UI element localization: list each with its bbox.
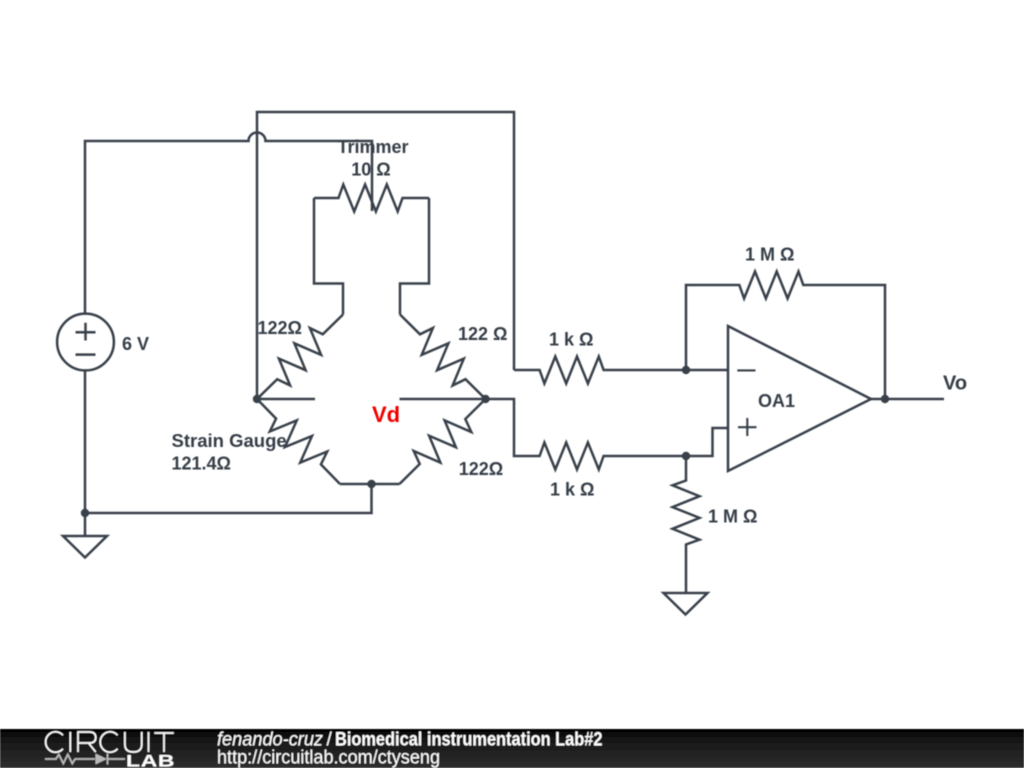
svg-text:LAB: LAB (126, 752, 175, 768)
svg-text:OA1: OA1 (758, 391, 795, 411)
svg-text:Vd: Vd (372, 402, 400, 427)
svg-text:http://circuitlab.com/ctyseng: http://circuitlab.com/ctyseng (217, 747, 440, 768)
svg-text:6 V: 6 V (122, 334, 149, 354)
svg-text:Strain Gauge: Strain Gauge (172, 431, 287, 451)
svg-text:Vo: Vo (943, 373, 967, 395)
svg-text:121.4Ω: 121.4Ω (172, 453, 231, 473)
svg-text:1 M Ω: 1 M Ω (745, 245, 794, 265)
svg-text:Trimmer: Trimmer (337, 137, 408, 157)
svg-text:1 k Ω: 1 k Ω (550, 480, 594, 500)
svg-text:122 Ω: 122 Ω (458, 324, 507, 344)
svg-text:1 k Ω: 1 k Ω (549, 329, 593, 349)
svg-text:10 Ω: 10 Ω (351, 160, 390, 180)
svg-text:122Ω: 122Ω (258, 318, 302, 338)
svg-text:1 M Ω: 1 M Ω (708, 507, 757, 527)
svg-text:122Ω: 122Ω (459, 459, 503, 479)
